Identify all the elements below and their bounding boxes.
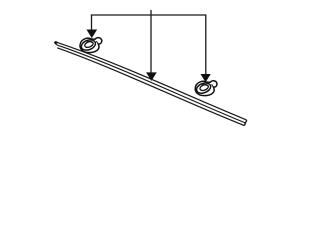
arrowhead middle	[147, 73, 157, 81]
clip (grommet) right: slot detail line	[202, 85, 208, 86]
clip (grommet) left: flange ellipse	[80, 38, 97, 52]
clip (grommet) right: flange ellipse	[195, 81, 212, 95]
clip (grommet) right: outer body with side tab	[195, 81, 217, 96]
leader line middle vertical	[150, 10, 152, 75]
clip (grommet) left: inner ellipse	[84, 40, 94, 48]
leader line right vertical	[205, 15, 207, 75]
clip (grommet) left: outer body with side tab	[80, 38, 102, 53]
clip (grommet) right: inner ellipse	[199, 84, 209, 92]
clip (grommet) right: tab-to-flange detail line	[212, 84, 214, 87]
molding strip bottom edge	[57, 48, 244, 126]
leader line horizontal	[91, 14, 207, 16]
arrowhead right	[201, 74, 210, 81]
arrowhead left	[87, 30, 97, 38]
clip (grommet) left: slot detail line	[87, 41, 93, 42]
molding strip left end cap tip	[54, 41, 57, 43]
leader line left vertical	[91, 15, 93, 32]
molding strip middle edge	[55, 43, 245, 123]
molding strip right end cap	[244, 120, 247, 126]
clip (grommet) left: tab-to-flange detail line	[96, 41, 98, 44]
molding strip top edge	[55, 42, 246, 120]
